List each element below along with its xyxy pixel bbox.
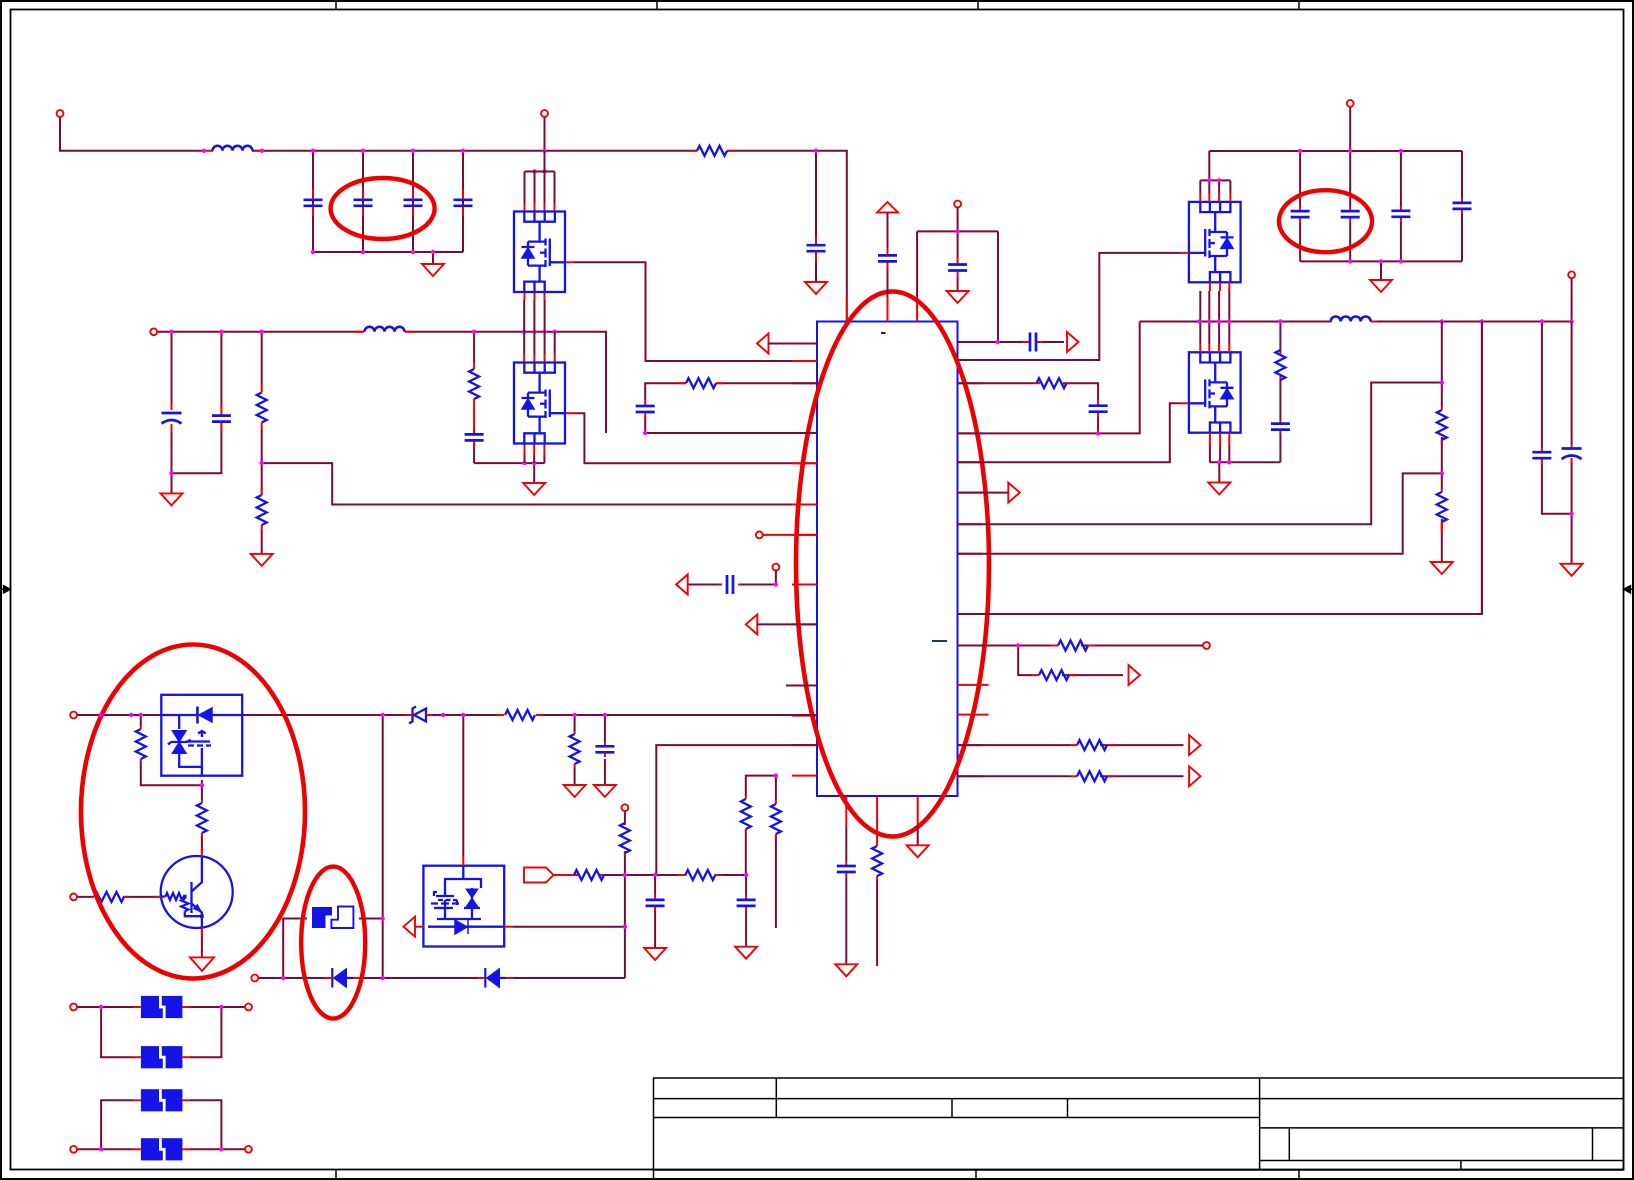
wire port R20 drop xyxy=(624,811,626,875)
transistor Q4 emitter arrow xyxy=(195,906,201,912)
transistor Q3 right MOSFET module xyxy=(1189,202,1241,282)
wire fet box bottom to diode riser xyxy=(513,875,625,978)
wire bypass drop x816 xyxy=(815,151,817,282)
wire fuse group2 bottom xyxy=(77,1148,245,1150)
title block right cell divider D xyxy=(1288,1128,1290,1161)
title block row line 1 xyxy=(654,1098,1624,1100)
diode D3 xyxy=(334,969,347,988)
capacitor C14 pin342 xyxy=(1023,333,1043,352)
junction dot x1098 xyxy=(1096,431,1100,435)
resistor R9 pin383 xyxy=(1033,378,1070,388)
annotation ellipse around C2 C3 xyxy=(331,178,435,239)
border tick top 1 xyxy=(335,1,337,10)
wire gnd stem bank xyxy=(1380,261,1382,280)
capacitor C5 bypass x816 xyxy=(807,236,826,262)
capacitor C15 x1098 xyxy=(1089,400,1108,417)
annotation ellipse small xyxy=(301,867,365,1019)
U3 diode xyxy=(455,920,468,934)
wire pin745 net xyxy=(958,744,1184,746)
body diode Q1 xyxy=(522,248,535,259)
wire bottom pin3 to gnd xyxy=(917,826,919,845)
annotation ellipse around IC xyxy=(796,292,989,837)
wire pin433 right net xyxy=(958,322,1140,434)
resistor R20 xyxy=(620,822,630,856)
wire caps bottom bus xyxy=(1300,260,1462,262)
diode D3 stubs xyxy=(324,977,360,979)
wire C10 to gnd xyxy=(957,278,959,291)
port P10 zener row xyxy=(70,712,77,719)
pin stubs red right fet2 xyxy=(1200,344,1229,445)
capacitor C9 vcc xyxy=(878,248,897,270)
port P16 xyxy=(70,1146,77,1153)
port arrow pin492 xyxy=(1008,483,1020,503)
IC pin stubs red top and bottom xyxy=(846,297,917,843)
capacitor C3 xyxy=(404,189,423,216)
inductor L1 xyxy=(204,146,261,151)
wire C7 drop xyxy=(172,332,222,473)
border tick bottom 1 xyxy=(335,1170,337,1180)
capacitor C21 output xyxy=(1532,448,1551,464)
wire pin776 net xyxy=(746,776,776,928)
wire emitter to gnd xyxy=(201,926,203,957)
capacitor C1 xyxy=(304,189,323,216)
wire zener row y715 xyxy=(77,714,817,716)
capacitor C23 xyxy=(595,742,614,757)
transistor Q4 base resistor xyxy=(166,893,185,900)
wire U3 gate stub xyxy=(415,926,423,928)
wire C4 drop xyxy=(462,151,464,252)
pin stubs red right fet xyxy=(1180,194,1230,404)
annotation ellipse around C16 C17 xyxy=(1279,190,1372,252)
fuse F3 xyxy=(133,1046,190,1068)
junction dot pin433 xyxy=(643,431,647,435)
U3 gate arrow port xyxy=(404,917,416,937)
ground under bank xyxy=(1370,280,1392,292)
resistor R3 lower xyxy=(257,488,267,532)
capacitor C16 xyxy=(1291,207,1310,223)
wire pin383 right net xyxy=(958,383,1099,433)
wire C24 drop xyxy=(654,875,656,948)
port P3 xyxy=(150,328,157,335)
resistor R16 divider bottom xyxy=(1437,489,1447,533)
wire cap drop c19 xyxy=(1461,151,1463,261)
resistor R6 pin383 xyxy=(679,378,723,388)
wire base net xyxy=(77,896,160,898)
title block cell divider C xyxy=(1067,1099,1069,1118)
resistor R8 x776 xyxy=(771,800,781,838)
port P17 xyxy=(245,1146,252,1153)
junction dot pin342 xyxy=(996,340,1000,344)
resistor R18 xyxy=(197,800,207,838)
junction dot pin585 xyxy=(774,582,778,586)
port P11 base xyxy=(70,894,77,901)
wire pin745 jog xyxy=(656,745,817,875)
junction dots right edge xyxy=(1440,319,1574,516)
U3 pin stubs xyxy=(462,857,464,866)
wire fuse group2 loop xyxy=(101,1100,221,1149)
capacitor C24 xyxy=(646,895,665,911)
U3 zener pair xyxy=(466,889,478,907)
border tick bottom 2 (title block edge extension) xyxy=(653,1170,655,1180)
border tick bottom 3 xyxy=(975,1170,977,1180)
resistor R13 pin776 xyxy=(1070,771,1114,781)
wire top bracket xyxy=(917,208,998,343)
title block right cell divider E xyxy=(1592,1128,1594,1161)
port P1 xyxy=(57,110,64,117)
transistor Q4 xyxy=(161,856,233,928)
wire row1 right xyxy=(727,151,847,322)
port arrow pin624 xyxy=(746,614,758,634)
wire bottom pin1 to cap xyxy=(845,827,847,964)
power arrow VCC xyxy=(877,202,898,213)
port P8 xyxy=(1347,100,1354,107)
ground under cap bank xyxy=(422,264,444,276)
port arrow pin343 xyxy=(757,334,769,354)
capacitor C4 xyxy=(454,189,473,216)
junction dots top right xyxy=(1197,149,1574,465)
wire pin585 net xyxy=(688,571,776,585)
transistor Q2 lower MOSFET module xyxy=(514,363,565,444)
IC U1 outline xyxy=(817,322,958,797)
border tick bottom 4 xyxy=(1298,1170,1300,1180)
resistor R5 bottom xyxy=(872,843,882,880)
wire divider chain x474 xyxy=(473,332,475,463)
capacitor C25 xyxy=(737,895,756,911)
ground under C25 xyxy=(735,947,757,959)
ground under Q4 xyxy=(190,957,214,971)
wire pin383 net xyxy=(645,383,817,433)
resistor R11 pin675 xyxy=(1032,670,1076,680)
wire gate Q2 jog to IC pin463 xyxy=(575,413,817,463)
port P9 stem right xyxy=(1571,278,1573,321)
diode D4 stubs xyxy=(477,977,513,979)
wire cap drop c16 xyxy=(1299,151,1301,261)
port P12 gate drive xyxy=(622,804,629,811)
wire C6 drop xyxy=(171,332,173,494)
wire pin614 jog xyxy=(958,322,1482,615)
wire C3 drop xyxy=(412,151,414,252)
pin stubs red upper fet xyxy=(524,203,575,455)
junction dot pin776 xyxy=(774,773,778,777)
resistor R10 pin645 xyxy=(1051,641,1095,651)
fuse F4 xyxy=(133,1089,190,1111)
resistor R2 upper xyxy=(257,385,267,430)
resistor R12 pin745 xyxy=(1070,740,1114,750)
resistor R7 x746 xyxy=(741,796,751,832)
port P14 xyxy=(70,1004,77,1011)
wire cap drop c17 xyxy=(1349,151,1351,261)
resistor R22 tag xyxy=(553,870,604,880)
ground under C24 xyxy=(644,948,666,960)
IC pin stubs red left xyxy=(792,344,817,776)
wire diode row y977 xyxy=(258,919,625,979)
wire pin524 jog xyxy=(958,383,1442,525)
ground under C10 xyxy=(947,291,969,303)
port arrow pin745 xyxy=(1189,735,1201,755)
transistor Q4 tap squares xyxy=(183,895,187,899)
inductor L2 xyxy=(355,327,414,332)
wire R2 tap to pin505 xyxy=(262,463,817,504)
junction dots row1 xyxy=(202,149,818,255)
port P9 xyxy=(1568,271,1575,278)
wire tag row y875 xyxy=(556,874,746,876)
wire divider chain x1441 xyxy=(1441,322,1443,563)
resistor R19 xyxy=(570,731,580,768)
border tick top 2 xyxy=(656,1,658,10)
IC U1 mark 1 xyxy=(881,332,886,334)
border arrow right xyxy=(1624,586,1634,593)
border tick top 3 xyxy=(977,1,979,10)
wire phase bus y321 xyxy=(1140,321,1572,323)
capacitor C8 snubber x474 xyxy=(465,406,484,448)
junction dots diode row xyxy=(281,916,385,980)
wire right fet bottom stubs xyxy=(1200,291,1229,322)
ground under C5 xyxy=(805,282,827,294)
capacitor C6 polarized xyxy=(162,403,182,432)
ground under C6 C7 xyxy=(161,493,183,505)
wire bottom pin2 to resistor xyxy=(876,880,878,966)
wire drain bracket upper fet xyxy=(525,151,555,203)
border arrow left xyxy=(0,586,11,593)
wire fuse group1 loop xyxy=(101,1007,221,1057)
port P13 diode row xyxy=(251,975,258,982)
wire right fet source bus xyxy=(1210,462,1281,482)
inductor L3 xyxy=(1331,317,1377,322)
wire gnd stem row1 xyxy=(432,252,434,264)
wire pin686 stub xyxy=(786,685,817,687)
opto TVS bars xyxy=(168,740,191,745)
wire fuse group1 top xyxy=(77,1006,245,1008)
wire x1482 drop xyxy=(1481,322,1483,615)
title block divider vertical main xyxy=(1259,1078,1261,1170)
dual MOSFET box U3 xyxy=(423,866,504,947)
title block row line 2 left xyxy=(654,1117,1260,1119)
junction dot pin645 xyxy=(1016,643,1020,647)
wire R2 drop xyxy=(261,332,263,554)
resistor R15 divider top xyxy=(1437,407,1447,443)
capacitor C10 xyxy=(948,257,967,278)
wire pin645 net xyxy=(958,646,1204,676)
junction dots row2 xyxy=(169,330,557,476)
wire R17 drop xyxy=(141,715,202,785)
fuse F1 small xyxy=(312,907,353,929)
wire output caps xyxy=(1542,322,1572,564)
capacitor C18 xyxy=(1391,206,1410,222)
wire C2 drop xyxy=(362,151,364,252)
wire snubber chain x1280 xyxy=(1279,322,1281,463)
annotation ellipse big xyxy=(81,645,305,979)
port arrow pin675 xyxy=(1129,665,1141,685)
wire pin360 jog to right fet gate xyxy=(958,253,1181,360)
IC pin stubs red right xyxy=(958,342,989,776)
junction dot top bracket xyxy=(955,229,959,233)
port P2 stem wire xyxy=(544,117,546,151)
wire riser x382 xyxy=(382,715,384,978)
resistor R4 snubber x474 xyxy=(469,362,479,406)
optocoupler U2 box xyxy=(161,695,242,776)
wire VCC stem xyxy=(887,213,889,298)
resistor R24 zener row xyxy=(497,710,543,720)
title block right row line 2 xyxy=(1260,1127,1624,1129)
wire opto output stub xyxy=(201,780,203,785)
ground under C11 xyxy=(835,964,857,976)
resistor R17 xyxy=(136,726,146,762)
port P7 pin645 xyxy=(1203,642,1210,649)
junction dots tag row xyxy=(623,873,749,929)
ground under divider xyxy=(1431,562,1453,574)
wire C1 drop xyxy=(312,151,314,252)
wire phase verticals between fets xyxy=(524,300,555,354)
capacitor C22 output polarized xyxy=(1562,444,1582,464)
wire lower fet source stubs xyxy=(525,455,545,463)
tag port flag xyxy=(524,868,554,883)
fuse F5 xyxy=(133,1138,190,1160)
wire top right bus y151 xyxy=(1209,150,1462,152)
port P8 stem xyxy=(1349,107,1351,151)
body diode Q3 xyxy=(1221,238,1234,249)
wire C23 gnd leg xyxy=(604,715,606,785)
wire R18 to transistor xyxy=(201,785,203,853)
ground IC bottom pin3 xyxy=(907,845,929,857)
IC U1 mark 2 xyxy=(932,640,947,642)
wire pin744 riser join xyxy=(655,745,657,746)
ground under C23 xyxy=(594,785,616,797)
wire R19 gnd leg xyxy=(574,715,576,785)
border tick top 4 xyxy=(1298,1,1300,10)
capacitor C2 xyxy=(354,189,373,216)
wire source bus lower fet xyxy=(474,463,544,483)
port P6 pin585 xyxy=(773,564,780,571)
resistor R14 x1280 xyxy=(1275,350,1285,380)
capacitor C13 pin585 xyxy=(719,575,741,594)
title block right row line 3 xyxy=(1260,1160,1624,1162)
capacitor C7 xyxy=(212,405,231,431)
resistor R23 tag row second xyxy=(678,870,722,880)
wire right fet2 top stubs xyxy=(1200,322,1229,463)
title block outline xyxy=(654,1078,1624,1170)
port arrow pin585 xyxy=(676,575,688,595)
wire cap bottom bus xyxy=(313,251,463,253)
wire pin776 net xyxy=(958,775,1184,777)
transistor Q1 upper MOSFET module xyxy=(514,212,565,293)
capacitor C19 xyxy=(1453,198,1472,214)
wire pin342 net xyxy=(958,341,1065,343)
body diode Q2 xyxy=(522,399,535,410)
wire row1 mid xyxy=(252,150,697,152)
wire cap drop c18 xyxy=(1400,151,1402,261)
zener D1 xyxy=(409,707,426,724)
wire arrow pin343 xyxy=(769,343,818,345)
resistor R1 row1 xyxy=(690,146,734,156)
transistor Q5 right MOSFET module lower xyxy=(1189,352,1241,432)
opto diode D2 xyxy=(198,707,212,724)
ground lower fet source xyxy=(523,483,545,495)
wire arrow pin624 xyxy=(757,623,817,625)
ground under R19 xyxy=(564,785,586,797)
opto TVS bowtie xyxy=(172,731,186,754)
port P5 pin535 xyxy=(756,532,763,539)
zener D1 stubs xyxy=(405,714,433,716)
wire gate Q1 jog to IC pin361 xyxy=(574,262,817,361)
port P4 top xyxy=(954,201,961,208)
transistor Q4 pin stubs xyxy=(154,848,202,936)
capacitor C20 x1280 xyxy=(1271,421,1290,433)
wire port P5 xyxy=(763,534,817,536)
fuse F2 xyxy=(133,996,190,1018)
port P15 xyxy=(245,1004,252,1011)
ground under R3 xyxy=(251,554,273,566)
junction dots zener row xyxy=(99,713,608,788)
wire row2 main xyxy=(154,332,606,433)
diode D4 xyxy=(487,969,500,988)
ground under output caps xyxy=(1561,564,1583,576)
ground right fet source xyxy=(1208,483,1230,495)
port P1 stem wire xyxy=(60,117,204,151)
wire riser x463 xyxy=(462,715,464,857)
wire bracket right fet xyxy=(1200,151,1230,194)
capacitor C17 xyxy=(1341,207,1360,223)
title block right bottom divider F xyxy=(1460,1161,1462,1171)
port arrow pin776 xyxy=(1189,766,1201,786)
capacitor C11 bottom xyxy=(837,861,856,877)
title block cell divider B xyxy=(951,1099,953,1118)
junction dots fuse groups xyxy=(99,1005,224,1152)
wire pin462 to right fet gate xyxy=(958,403,1181,462)
resistor R21 base xyxy=(91,892,129,902)
wire arrow pin492 xyxy=(958,492,1009,494)
capacitor C12 pin383 xyxy=(636,400,655,418)
wire C25 drop xyxy=(745,875,747,947)
port P2 xyxy=(541,110,548,117)
wire pin554 jog xyxy=(958,473,1442,553)
title block cell divider A xyxy=(775,1078,777,1118)
port arrow pin342 xyxy=(1067,332,1079,352)
